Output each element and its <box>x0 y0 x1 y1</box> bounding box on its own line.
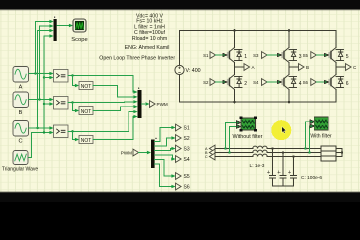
svg-text:Scope: Scope <box>71 37 87 43</box>
capacitor C2 <box>280 153 286 187</box>
wire demux out5 to S5 <box>155 160 172 177</box>
transistor Q6 <box>328 75 343 90</box>
voltage scope Without filter <box>240 117 257 132</box>
svg-text:Without filter: Without filter <box>233 134 263 140</box>
sine source B <box>13 92 29 108</box>
node scope2 tap B <box>308 151 310 153</box>
wire riser B to scope mux <box>40 26 51 100</box>
cursor highlight circle <box>271 120 291 140</box>
node top bus leg1 <box>233 29 236 32</box>
node cap3 tap <box>292 155 294 157</box>
transistor Q5 <box>328 48 343 63</box>
resistor load R1 R2 R3 <box>321 146 336 161</box>
node top bus leg2 <box>288 29 291 32</box>
port S3 <box>176 145 182 152</box>
transistor Q2 <box>227 75 242 90</box>
node comparator1 output branch <box>71 74 73 76</box>
node cap1 tap <box>271 147 273 149</box>
wire riser C to scope mux <box>38 31 51 129</box>
svg-text:A: A <box>19 85 23 91</box>
svg-text:ENG: Ahmed Kamil: ENG: Ahmed Kamil <box>125 45 170 51</box>
node comparator3 output branch <box>71 130 73 132</box>
polarity mark C1 <box>267 171 269 173</box>
node load star <box>341 151 343 153</box>
wire to scope2 in1 <box>306 122 311 149</box>
wire triangular wave output <box>29 133 51 158</box>
wire capacitor star bus <box>273 185 294 187</box>
svg-text:B: B <box>306 65 309 70</box>
node on wire C <box>36 127 38 129</box>
wire NOT2 output to pwm mux in4 <box>93 107 135 111</box>
scope mux <box>54 19 57 41</box>
inductor L2 <box>253 150 267 152</box>
wire gate S1 <box>216 54 223 56</box>
port S2 <box>176 135 182 142</box>
NOT gate 2 <box>79 107 93 116</box>
svg-text:Open Loop Three Phase Inverter: Open Loop Three Phase Inverter <box>99 55 175 61</box>
svg-text:PWM: PWM <box>121 150 132 155</box>
wire gate S4 <box>267 81 277 83</box>
wire DC bus bottom <box>180 101 337 103</box>
wire gate S3 <box>267 54 277 56</box>
wire NOT3 output to pwm mux in6 <box>93 117 135 140</box>
port S4 <box>176 156 182 163</box>
wire gate S2 <box>216 81 223 83</box>
letterbox bar bottom <box>0 192 360 193</box>
wire phase A line <box>215 148 321 150</box>
svg-text:C: 100e-6: C: 100e-6 <box>301 175 322 181</box>
svg-text:With filter: With filter <box>310 134 332 140</box>
node bottom bus leg1 <box>233 101 236 104</box>
svg-text:NOT: NOT <box>81 84 92 90</box>
wire to scope2 in2 <box>310 126 311 153</box>
leg 2 wires <box>288 31 290 103</box>
transistor Q3 <box>281 48 296 63</box>
wire NOT1 output to pwm mux in2 <box>93 86 135 97</box>
wire gate S6 <box>316 81 324 83</box>
polarity mark C2 <box>278 171 280 173</box>
svg-text:S3: S3 <box>253 53 259 58</box>
svg-text:Rload= 10 ohm: Rload= 10 ohm <box>132 36 167 42</box>
svg-text:1: 1 <box>244 54 247 60</box>
wire branch to NOT2 <box>73 103 77 111</box>
wire demux out1 to S1 <box>155 128 172 142</box>
wire to scope1 in2 <box>230 127 237 153</box>
svg-text:S5: S5 <box>303 53 309 58</box>
demux <box>151 140 155 169</box>
node bottom bus leg2 <box>288 101 291 104</box>
mouse cursor <box>282 127 286 134</box>
svg-text:S6: S6 <box>184 184 190 190</box>
svg-text:S2: S2 <box>184 136 190 142</box>
wire demux out2 to S2 <box>155 138 172 146</box>
port node B <box>299 64 305 71</box>
voltage scope With filter <box>314 117 328 130</box>
node triangle trunk row2 <box>43 103 45 105</box>
port label PWM (output) <box>150 101 156 108</box>
node on wire B <box>38 98 40 100</box>
wire pwm mux output <box>142 103 145 105</box>
wire triangle trunk riser <box>44 36 51 133</box>
node scope1 tap A <box>224 147 226 149</box>
svg-text:L: 1e-3: L: 1e-3 <box>250 163 265 169</box>
wire comparator3 output to pwm mux in5 <box>68 112 135 132</box>
svg-text:NOT: NOT <box>81 138 92 144</box>
leg 1 wires <box>234 31 236 103</box>
svg-text:B: B <box>19 110 23 116</box>
port S1 <box>176 124 182 131</box>
svg-text:V: 400: V: 400 <box>186 68 201 74</box>
node triangle trunk row1 <box>43 76 45 78</box>
svg-text:S6: S6 <box>303 80 309 85</box>
port node A <box>244 64 250 71</box>
svg-text:PWM: PWM <box>157 102 168 107</box>
NOT gate 1 <box>79 82 93 91</box>
transistor Q1 <box>227 48 242 63</box>
wire comparator1 output to pwm mux in1 <box>68 76 135 93</box>
wire triangle branch to comparator 2 <box>44 103 51 105</box>
wire gate S5 <box>316 54 324 56</box>
wire node B branch <box>289 66 298 68</box>
node comparator2 output branch <box>71 101 73 103</box>
transistor Q4 <box>281 75 296 90</box>
port S6 <box>176 183 182 190</box>
svg-text:S4: S4 <box>253 80 259 85</box>
wire node C branch <box>336 66 345 68</box>
wire riser A to scope mux <box>36 22 51 74</box>
port S5 <box>176 173 182 180</box>
svg-text:S3: S3 <box>184 146 190 152</box>
svg-text:S1: S1 <box>184 125 190 131</box>
NOT gate 3 <box>79 136 93 145</box>
node triangle trunk row3 <box>43 131 45 133</box>
svg-text:2: 2 <box>244 81 247 87</box>
wire A to comparator 1 <box>29 73 51 75</box>
wire branch to NOT3 <box>73 131 77 139</box>
svg-text:S1: S1 <box>203 53 209 58</box>
pwm mux <box>138 90 142 118</box>
svg-text:S4: S4 <box>184 157 190 163</box>
wire load star <box>336 149 342 157</box>
triangular wave source <box>13 151 28 165</box>
wire PWM to demux <box>139 152 148 154</box>
letterbox bar top <box>0 0 360 9</box>
wire branch to NOT1 <box>73 76 77 86</box>
wire node A branch <box>235 66 244 68</box>
wire left bus upper <box>179 31 181 66</box>
comparator 2 <box>54 97 69 110</box>
svg-text:4: 4 <box>299 81 302 87</box>
svg-text:S2: S2 <box>203 80 209 85</box>
wire DC bus top <box>180 30 337 32</box>
wire demux out6 to S6 <box>155 164 172 187</box>
node cap2 tap <box>282 151 284 153</box>
inductor L1 <box>253 146 267 148</box>
wire demux out4 to S4 <box>155 155 173 159</box>
comparator 3 <box>54 125 69 138</box>
sine source C <box>13 121 29 137</box>
comparator 1 <box>54 70 69 83</box>
wire triangle branch to comparator 1 <box>44 77 51 79</box>
svg-text:S5: S5 <box>184 174 190 180</box>
wire demux out3 to S3 <box>155 149 172 151</box>
polarity mark C3 <box>288 171 290 173</box>
node scope1 tap B <box>228 151 230 153</box>
svg-text:Triangular Wave: Triangular Wave <box>2 167 39 173</box>
capacitor C3 <box>291 157 297 187</box>
wire left bus lower <box>179 75 181 103</box>
wire scope mux to scope <box>57 25 70 27</box>
svg-text:NOT: NOT <box>81 109 92 115</box>
wire phase B line <box>215 152 321 154</box>
node scope2 tap A <box>304 147 306 149</box>
capacitor C1 <box>270 149 276 187</box>
node on wire A <box>34 72 36 74</box>
leg 3 wires <box>335 31 337 103</box>
svg-text:5: 5 <box>346 54 349 60</box>
wire to scope1 in1 <box>226 123 237 149</box>
svg-text:C: C <box>18 139 22 145</box>
svg-text:6: 6 <box>346 81 349 87</box>
port node C <box>346 64 352 71</box>
wire B to comparator 2 <box>29 99 51 101</box>
wire comparator2 output to pwm mux in3 <box>68 101 135 104</box>
svg-text:3: 3 <box>299 54 302 60</box>
svg-text:C: C <box>205 155 208 159</box>
sine source A <box>13 67 29 83</box>
wire C to comparator 3 <box>29 127 51 129</box>
voltage source V1 <box>175 65 184 74</box>
wire phase C line <box>215 156 321 158</box>
scope block <box>73 19 86 32</box>
inductor L3 <box>253 154 267 156</box>
